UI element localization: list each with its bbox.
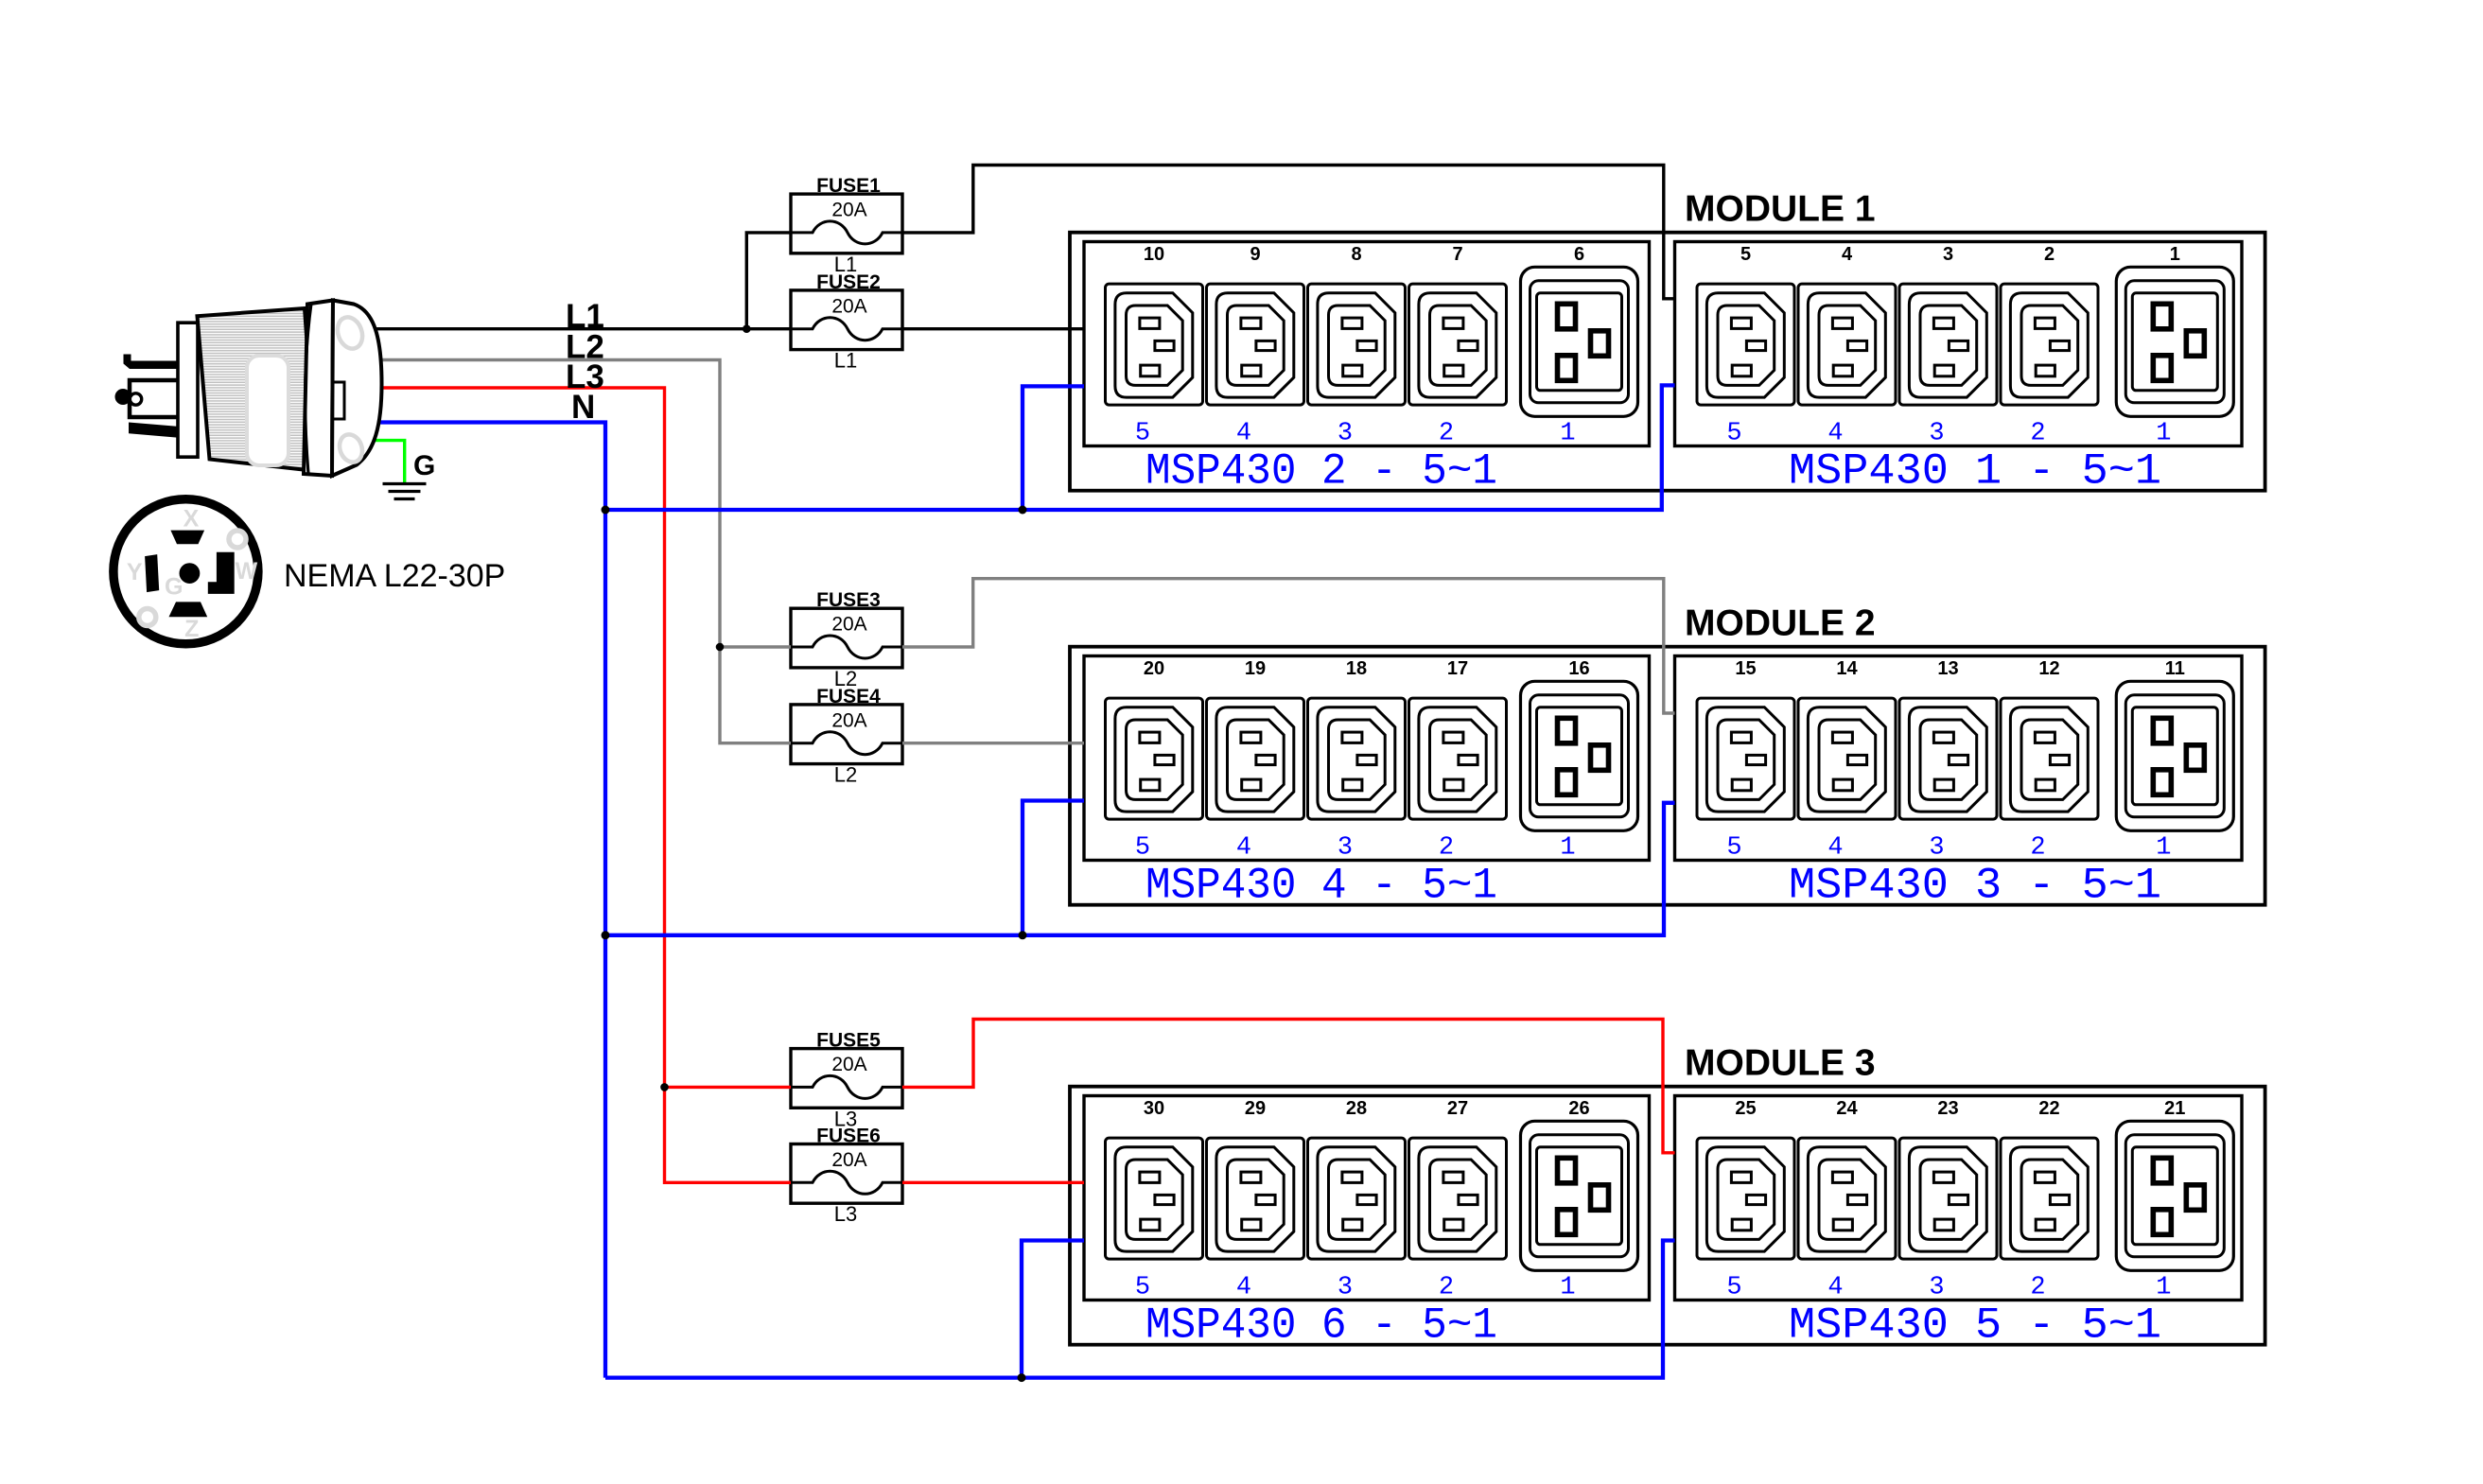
module 3 enclosure box [1070, 1087, 2265, 1345]
board MSP430 4 (left) outline [1084, 656, 1650, 861]
svg-text:3: 3 [1943, 244, 1953, 265]
svg-text:2: 2 [1439, 834, 1454, 863]
svg-text:20A: 20A [831, 709, 866, 731]
outlet 27 (IEC C13) with pin labels [1409, 1098, 1507, 1302]
outlet 14 (IEC C13) with pin labels [1798, 658, 1896, 863]
outlet 21 (IEC C19) with pin labels [2116, 1098, 2233, 1302]
svg-text:20A: 20A [831, 1054, 866, 1075]
wire L3 trunk down to FUSE6 input [665, 1087, 792, 1182]
module 1 enclosure box [1070, 233, 2265, 491]
svg-text:30: 30 [1144, 1098, 1164, 1119]
svg-text:3: 3 [1929, 1274, 1944, 1302]
svg-text:MODULE 2: MODULE 2 [1685, 603, 1876, 644]
svg-text:FUSE1: FUSE1 [816, 175, 881, 197]
svg-text:17: 17 [1447, 658, 1468, 679]
svg-text:13: 13 [1937, 658, 1958, 679]
fuse FUSE6 20A [791, 1144, 902, 1204]
receptacle slot W (right, J-shaped) [208, 552, 235, 594]
outlet 22 (IEC C13) with pin labels [2001, 1098, 2098, 1302]
svg-text:Z: Z [184, 616, 199, 642]
receptacle screws [229, 531, 246, 548]
svg-text:N: N [571, 389, 595, 426]
junction N at module 1 trunk [602, 506, 610, 515]
wire L2 from FUSE3 output over module 2 to right board [902, 579, 1675, 713]
svg-text:FUSE6: FUSE6 [816, 1126, 881, 1147]
svg-text:FUSE3: FUSE3 [816, 589, 881, 611]
outlet 7 (IEC C13) with pin labels [1409, 244, 1507, 448]
wire L1 branch riser to FUSE1 input [746, 233, 791, 329]
svg-text:9: 9 [1250, 244, 1260, 265]
svg-text:3: 3 [1338, 834, 1353, 863]
svg-text:5: 5 [1135, 1274, 1150, 1302]
plug line blade L1 (top prong) [124, 355, 180, 370]
wire N trunk module2 to module3 [603, 935, 607, 1378]
svg-text:1: 1 [1560, 420, 1575, 448]
receptacle slot Y (left) [145, 554, 159, 592]
outlet 18 (IEC C13) with pin labels [1308, 658, 1406, 863]
fuse FUSE2 20A [791, 290, 902, 350]
outlet 6 (IEC C19) with pin labels [1521, 244, 1638, 448]
svg-text:27: 27 [1447, 1098, 1468, 1119]
svg-text:3: 3 [1338, 1274, 1353, 1302]
svg-text:MSP430 6 - 5~1: MSP430 6 - 5~1 [1145, 1301, 1497, 1351]
wire L2 from plug down to FUSE3 level [377, 360, 720, 648]
svg-text:NEMA L22-30P: NEMA L22-30P [284, 558, 505, 594]
board MSP430 2 (left) outline [1084, 242, 1650, 446]
svg-text:5: 5 [1726, 1274, 1741, 1302]
svg-text:1: 1 [2156, 420, 2171, 448]
svg-text:FUSE4: FUSE4 [816, 686, 881, 707]
plug ground pin (middle, end-on) [115, 389, 131, 405]
svg-text:4: 4 [1842, 244, 1853, 265]
receptacle slot X (top) [170, 531, 204, 545]
plug cap screw boss (top) [333, 314, 366, 353]
wire N branch to module 3 left board [1022, 1241, 1084, 1378]
plug front cap [332, 301, 382, 477]
svg-text:3: 3 [1929, 834, 1944, 863]
junction L1 at FUSE1/FUSE2 branch [743, 324, 751, 333]
wire N trunk module1 to module2 [603, 510, 607, 935]
svg-text:MSP430 5 - 5~1: MSP430 5 - 5~1 [1789, 1301, 2161, 1351]
outlet 9 (IEC C13) with pin labels [1207, 244, 1304, 448]
svg-text:7: 7 [1452, 244, 1462, 265]
junction L3 at FUSE5 branch [660, 1083, 669, 1091]
board MSP430 6 (left) outline [1084, 1096, 1650, 1301]
plug cap screw boss (bottom) [336, 431, 366, 465]
svg-text:MSP430 3 - 5~1: MSP430 3 - 5~1 [1789, 862, 2161, 911]
svg-text:L1: L1 [834, 349, 857, 373]
svg-text:20A: 20A [831, 1149, 866, 1171]
svg-text:MODULE 1: MODULE 1 [1685, 189, 1876, 230]
svg-text:28: 28 [1346, 1098, 1367, 1119]
wire L1 from FUSE1 output over module 1 to right board [902, 166, 1675, 299]
outlet 10 (IEC C13) with pin labels [1106, 244, 1203, 448]
svg-text:2: 2 [2044, 244, 2055, 265]
svg-text:2: 2 [2030, 834, 2045, 863]
junction L2 at FUSE3 branch [716, 643, 725, 652]
svg-text:4: 4 [1827, 420, 1843, 448]
wire N bus module 3 with riser to right board [605, 1241, 1675, 1378]
svg-text:16: 16 [1568, 658, 1589, 679]
wire L3 from FUSE5 output over module 3 to right board [902, 1020, 1675, 1153]
svg-text:20: 20 [1144, 658, 1164, 679]
wire L2 from FUSE4 output to module 2 left board [902, 742, 1084, 744]
svg-text:1: 1 [1560, 834, 1575, 863]
outlet 26 (IEC C19) with pin labels [1521, 1098, 1638, 1302]
NEMA L22-30P receptacle face symbol [114, 499, 258, 644]
outlet 5 (IEC C13) with pin labels [1697, 244, 1794, 448]
svg-text:5: 5 [1740, 244, 1751, 265]
svg-text:Y: Y [127, 559, 143, 585]
wire L3 from plug down to FUSE5 level [380, 388, 665, 1087]
svg-text:2: 2 [2030, 420, 2045, 448]
svg-text:G: G [413, 450, 435, 481]
outlet 8 (IEC C13) with pin labels [1308, 244, 1406, 448]
svg-text:29: 29 [1245, 1098, 1266, 1119]
svg-text:1: 1 [2170, 244, 2180, 265]
svg-text:18: 18 [1346, 658, 1367, 679]
wire N from plug down to module 1 neutral bus [378, 423, 605, 511]
svg-text:15: 15 [1735, 658, 1756, 679]
outlet 11 (IEC C19) with pin labels [2116, 658, 2233, 863]
svg-text:MSP430 4 - 5~1: MSP430 4 - 5~1 [1145, 862, 1497, 911]
wire L1 from plug to FUSE2 input [365, 327, 791, 330]
svg-text:1: 1 [2156, 834, 2171, 863]
module 2 enclosure box [1070, 647, 2265, 905]
outlet 20 (IEC C13) with pin labels [1106, 658, 1203, 863]
svg-text:1: 1 [1560, 1274, 1575, 1302]
outlet 24 (IEC C13) with pin labels [1798, 1098, 1896, 1302]
junction N at module 3 left board branch [1018, 1373, 1026, 1382]
svg-text:4: 4 [1827, 834, 1843, 863]
junction N at module 2 trunk [602, 931, 610, 939]
plug NEMA L22-30P twist-lock plug illustration [115, 301, 382, 477]
outlet 17 (IEC C13) with pin labels [1409, 658, 1507, 863]
outlet 23 (IEC C13) with pin labels [1899, 1098, 1997, 1302]
svg-text:MSP430 2 - 5~1: MSP430 2 - 5~1 [1145, 447, 1497, 497]
svg-text:20A: 20A [831, 200, 866, 221]
svg-text:X: X [184, 505, 200, 532]
outlet 19 (IEC C13) with pin labels [1207, 658, 1304, 863]
fuse FUSE1 20A [791, 194, 902, 253]
svg-text:FUSE2: FUSE2 [816, 271, 881, 293]
svg-text:1: 1 [2156, 1274, 2171, 1302]
svg-text:L3: L3 [834, 1202, 857, 1226]
svg-text:5: 5 [1726, 834, 1741, 863]
wire L3 branch to FUSE5 input [665, 1086, 792, 1089]
outlet 30 (IEC C13) with pin labels [1106, 1098, 1203, 1302]
svg-text:MSP430 1 - 5~1: MSP430 1 - 5~1 [1789, 447, 2161, 497]
svg-text:2: 2 [2030, 1274, 2045, 1302]
svg-text:10: 10 [1144, 244, 1164, 265]
svg-text:5: 5 [1135, 420, 1150, 448]
outlet 28 (IEC C13) with pin labels [1308, 1098, 1406, 1302]
svg-text:4: 4 [1827, 1274, 1843, 1302]
svg-text:25: 25 [1735, 1098, 1756, 1119]
svg-text:23: 23 [1937, 1098, 1958, 1119]
svg-text:5: 5 [1135, 834, 1150, 863]
outlet 29 (IEC C13) with pin labels [1207, 1098, 1304, 1302]
svg-text:21: 21 [2164, 1098, 2185, 1119]
outlet 3 (IEC C13) with pin labels [1899, 244, 1997, 448]
wire N branch to module 2 left board [1023, 801, 1084, 935]
svg-text:2: 2 [1439, 420, 1454, 448]
svg-text:4: 4 [1236, 834, 1251, 863]
svg-text:20A: 20A [831, 614, 866, 636]
outlet 1 (IEC C19) with pin labels [2116, 244, 2233, 448]
svg-text:20A: 20A [831, 295, 866, 317]
receptacle slot Z (bottom) [169, 602, 208, 617]
fuse FUSE3 20A [791, 608, 902, 668]
svg-text:8: 8 [1351, 244, 1361, 265]
svg-text:2: 2 [1439, 1274, 1454, 1302]
svg-text:L2: L2 [834, 763, 857, 787]
svg-text:24: 24 [1836, 1098, 1858, 1119]
junction N at module 2 left board branch [1019, 931, 1027, 939]
outlet 4 (IEC C13) with pin labels [1798, 244, 1896, 448]
outlet 2 (IEC C13) with pin labels [2001, 244, 2098, 448]
plug locking ring [304, 301, 333, 477]
plug line blade (bottom prong) [129, 423, 180, 438]
outlet 12 (IEC C13) with pin labels [2001, 658, 2098, 863]
svg-text:12: 12 [2038, 658, 2059, 679]
fuse FUSE5 20A [791, 1049, 902, 1109]
wire L1 from FUSE2 output to module 1 left board [902, 327, 1084, 330]
wire N bus module 2 with riser to right board [605, 803, 1675, 935]
junction N at module 1 left board branch [1019, 506, 1027, 515]
wire N branch to module 1 left board [1023, 386, 1084, 510]
svg-text:G: G [165, 574, 183, 601]
receptacle terminal letters [127, 505, 258, 641]
svg-text:26: 26 [1568, 1098, 1589, 1119]
svg-text:4: 4 [1236, 1274, 1251, 1302]
svg-text:3: 3 [1338, 420, 1353, 448]
svg-text:FUSE5: FUSE5 [816, 1030, 881, 1052]
svg-text:11: 11 [2165, 658, 2185, 679]
board MSP430 1 (right) outline [1675, 242, 2243, 446]
board MSP430 3 (right) outline [1675, 656, 2243, 861]
wire L2 branch to FUSE3 input [720, 645, 791, 648]
ground symbol [383, 484, 427, 499]
board MSP430 5 (right) outline [1675, 1096, 2243, 1301]
svg-text:MODULE 3: MODULE 3 [1685, 1043, 1876, 1084]
svg-text:5: 5 [1726, 420, 1741, 448]
wire L3 from FUSE6 output to module 3 left board [902, 1181, 1084, 1184]
outlet 16 (IEC C19) with pin labels [1521, 658, 1638, 863]
fuse FUSE4 20A [791, 705, 902, 764]
wire G ground wire from plug [370, 441, 405, 482]
svg-text:W: W [236, 558, 258, 585]
svg-text:19: 19 [1245, 658, 1266, 679]
outlet 13 (IEC C13) with pin labels [1899, 658, 1997, 863]
wire L2 trunk down to FUSE4 input [720, 647, 791, 743]
svg-text:22: 22 [2038, 1098, 2059, 1119]
svg-text:6: 6 [1574, 244, 1584, 265]
wire N bus module 1 with riser to right board [605, 385, 1675, 510]
plug body rating label [247, 356, 289, 465]
outlet 15 (IEC C13) with pin labels [1697, 658, 1794, 863]
plug ribbed body [198, 308, 317, 471]
svg-text:4: 4 [1236, 420, 1251, 448]
plug rear housing [178, 323, 198, 457]
receptacle ground pin G (center) [180, 563, 201, 584]
outlet 25 (IEC C13) with pin labels [1697, 1098, 1794, 1302]
svg-text:14: 14 [1836, 658, 1858, 679]
svg-text:3: 3 [1929, 420, 1944, 448]
